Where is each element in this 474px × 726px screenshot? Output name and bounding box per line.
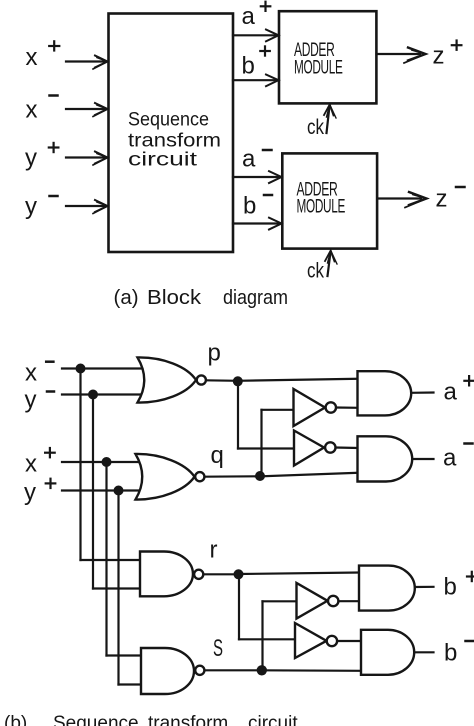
svg-text:b: b	[444, 640, 457, 667]
svg-text:z: z	[433, 43, 445, 70]
svg-text:z: z	[436, 186, 448, 213]
svg-text:y: y	[25, 193, 37, 220]
svg-text:y: y	[25, 145, 37, 172]
svg-text:b: b	[444, 574, 457, 601]
svg-text:ck: ck	[307, 259, 324, 283]
svg-text:x: x	[25, 360, 37, 387]
svg-text:b: b	[243, 193, 256, 220]
svg-text:q: q	[211, 442, 224, 469]
svg-text:S: S	[213, 635, 223, 662]
svg-text:x: x	[26, 97, 38, 124]
svg-text:a: a	[443, 445, 457, 472]
svg-text:a: a	[242, 3, 256, 30]
svg-text:x: x	[25, 451, 37, 478]
svg-text:Sequence: Sequence	[128, 109, 209, 131]
svg-text:p: p	[208, 340, 221, 367]
svg-text:y: y	[24, 479, 36, 506]
svg-text:b: b	[242, 53, 255, 80]
svg-text:x: x	[26, 44, 38, 71]
svg-text:a: a	[242, 146, 256, 173]
svg-text:y: y	[25, 387, 37, 414]
svg-text:MODULE: MODULE	[294, 58, 343, 79]
svg-text:MODULE: MODULE	[297, 197, 346, 218]
svg-text:a: a	[444, 379, 458, 406]
svg-text:circuit: circuit	[128, 149, 198, 171]
svg-text:r: r	[210, 537, 218, 564]
svg-text:ck: ck	[307, 115, 324, 139]
